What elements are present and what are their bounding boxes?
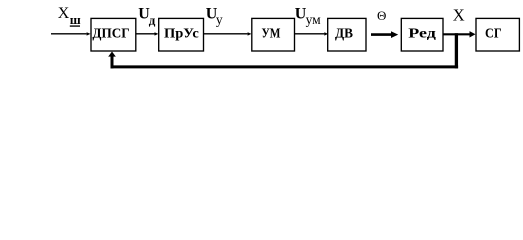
wire ПрУс to УМ: [204, 32, 252, 35]
svg-text:у: у: [216, 12, 223, 27]
block УМ: [252, 18, 295, 51]
node Θ label: [377, 8, 386, 23]
wire feedback arrowhead into ДПСГ: [108, 52, 116, 57]
svg-text:СГ: СГ: [485, 27, 502, 42]
node X output label: [453, 6, 465, 25]
wire input arrow: [51, 32, 91, 35]
wire feedback tap vertical from junction: [455, 33, 458, 68]
svg-text:д: д: [149, 13, 156, 28]
block Ред: [401, 18, 443, 51]
node Xш input label: [58, 5, 81, 27]
svg-text:Ред: Ред: [408, 27, 436, 42]
wire Ред to СГ: [443, 31, 476, 37]
wire УМ to ДВ: [295, 32, 329, 35]
svg-text:ДВ: ДВ: [335, 27, 353, 42]
wire feedback left vertical riser: [111, 55, 114, 69]
node Uу label: [206, 5, 223, 27]
block ДВ: [328, 18, 366, 51]
svg-text:ДПСГ: ДПСГ: [92, 27, 129, 42]
block ПрУс: [159, 18, 204, 51]
svg-text:X: X: [58, 5, 70, 22]
wire feedback bottom horizontal: [111, 65, 459, 68]
block ДПСГ: [91, 18, 136, 51]
svg-text:УМ: УМ: [262, 27, 281, 42]
svg-text:ПрУс: ПрУс: [164, 27, 199, 42]
node Uум label: [295, 5, 321, 27]
svg-text:X: X: [453, 6, 465, 25]
svg-text:ум: ум: [306, 12, 322, 27]
svg-text:ш: ш: [70, 12, 81, 27]
wire ДПСГ to ПрУс: [136, 32, 159, 35]
node Uд label: [138, 5, 155, 27]
block СГ: [476, 18, 519, 51]
svg-text:Θ: Θ: [377, 8, 386, 23]
wire thick arrow ДВ to Ред: [371, 31, 398, 38]
